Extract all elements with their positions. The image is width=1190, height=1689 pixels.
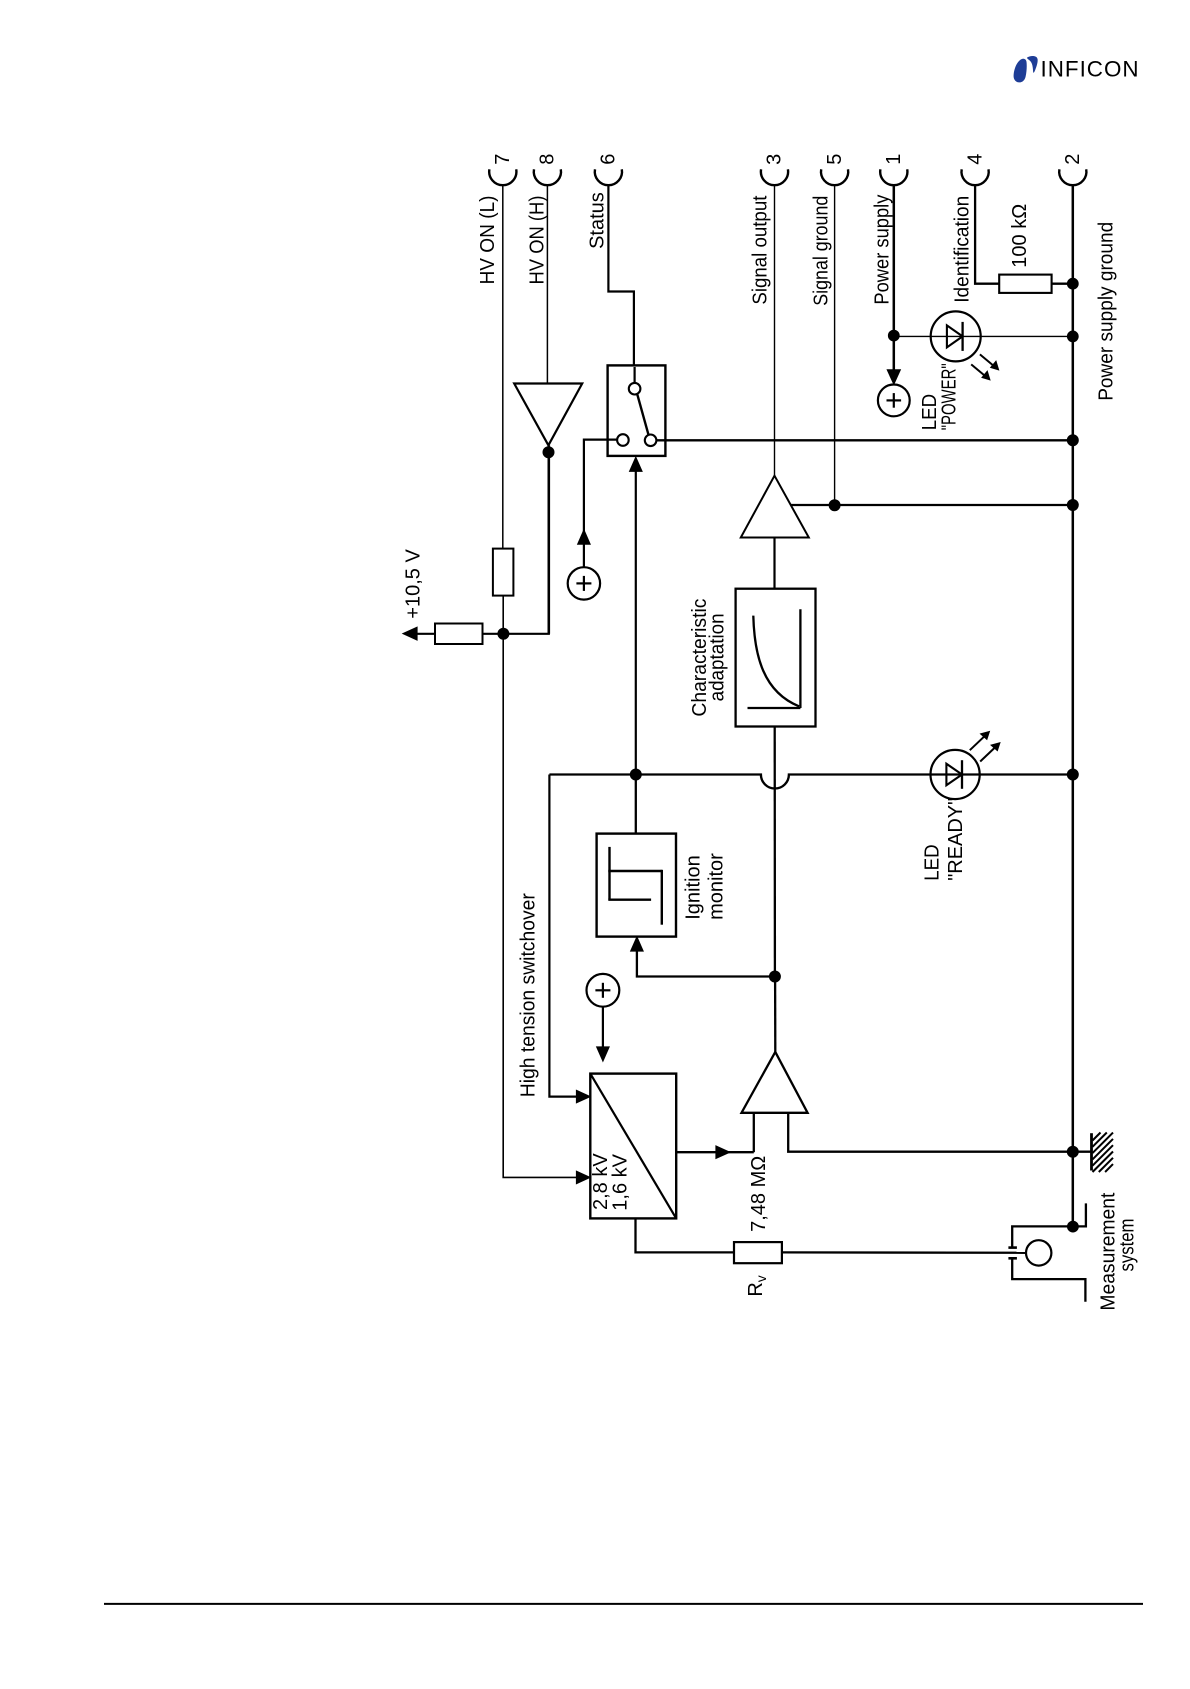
svg-text:100 kΩ: 100 kΩ — [1009, 204, 1031, 268]
svg-text:INFICON: INFICON — [1041, 57, 1140, 82]
wire amp2 left input leg — [753, 1113, 755, 1152]
wire amp1 to characteristic box — [773, 538, 775, 589]
characteristic adaptation box — [736, 589, 816, 727]
connector pin 4 — [962, 169, 989, 185]
wire resistor to inverter output — [483, 633, 550, 635]
switch blade — [637, 394, 648, 435]
LED READY circle — [931, 750, 980, 799]
wire HT converter output — [676, 1151, 754, 1153]
arrow HT output — [716, 1146, 730, 1159]
junction dot signal ground — [829, 500, 840, 511]
switch contact right — [645, 435, 657, 447]
wire amp2 output up — [774, 977, 777, 1052]
junction dot ready bus / pin2 — [1067, 769, 1078, 780]
wire pin 2 power supply ground — [1072, 185, 1075, 1227]
svg-text:Identification: Identification — [951, 196, 973, 303]
wire switch right contact to pin 2 bus — [656, 439, 1072, 441]
junction dot signal ground / pin2 — [1067, 500, 1078, 511]
wire inverter output down — [547, 445, 550, 634]
footer rule — [104, 1603, 1143, 1605]
characteristic curve — [753, 616, 799, 707]
gauge anode circle — [1026, 1240, 1051, 1265]
LED POWER emission arrows — [971, 354, 999, 380]
svg-text:8: 8 — [537, 154, 559, 165]
wire LED POWER row — [894, 335, 1073, 337]
junction dot LED POWER / pin2 — [1067, 331, 1078, 342]
LED READY diode — [946, 760, 962, 789]
svg-text:Rv: Rv — [745, 1275, 769, 1296]
connector pin 5 — [821, 169, 848, 185]
arrow into switch (ready command) — [630, 457, 643, 471]
svg-text:1,6 kV: 1,6 kV — [609, 1153, 631, 1210]
junction dot signal/ignition — [769, 971, 780, 982]
wire amp1 reference to signal ground — [791, 504, 1073, 506]
wire pin 6 to switch — [608, 185, 634, 366]
amplifier A2 (electrometer) — [742, 1052, 808, 1113]
connector pin 1 — [880, 169, 907, 185]
svg-text:+10,5 V: +10,5 V — [403, 549, 425, 619]
wire ready bus with hop — [549, 775, 1072, 789]
wire ignition monitor input — [637, 950, 775, 977]
wire HT converter to Rv — [636, 1218, 735, 1252]
characteristic curve axes — [748, 609, 801, 708]
wire pin 8 to inverter — [546, 185, 548, 384]
ignition monitor box — [597, 834, 676, 937]
connector pin 7 — [489, 169, 516, 185]
svg-text:Power supply: Power supply — [871, 195, 893, 305]
svg-text:2: 2 — [1062, 154, 1084, 165]
gauge upper electrode — [1008, 1203, 1086, 1247]
wire resistor to pin2 bus — [1052, 283, 1073, 285]
svg-text:system: system — [1117, 1219, 1139, 1272]
junction dot status bus / pin2 — [1067, 435, 1078, 446]
resistor (+10,5 V feed) — [435, 624, 483, 645]
wire power supply to + — [893, 336, 896, 372]
svg-text:1: 1 — [883, 154, 905, 165]
connector pin 2 — [1059, 169, 1086, 185]
wire pin 7 down to HT converter — [503, 596, 576, 1178]
wire arrow to resistor — [416, 633, 436, 635]
resistor 100 kOhm — [999, 275, 1051, 293]
connector pin 6 — [595, 169, 622, 185]
wire to chassis ground — [1073, 1151, 1091, 1153]
svg-text:Signal output: Signal output — [749, 195, 771, 304]
wire Rv to gauge anode — [782, 1251, 1026, 1254]
arrow into + supply — [887, 370, 900, 385]
wire pin 4 identification — [975, 185, 999, 284]
wire HT switchover command — [549, 775, 576, 1097]
connector pin 3 — [761, 169, 788, 185]
junction dot pin2 / measurement — [1068, 1221, 1079, 1232]
arrow up to switch command — [578, 530, 591, 544]
svg-text:6: 6 — [598, 154, 620, 165]
wire characteristic to signal node — [774, 727, 777, 977]
svg-text:"READY": "READY" — [945, 798, 967, 881]
HT converter box 2,8kV/1,6kV — [590, 1074, 676, 1219]
switch S1 box — [608, 365, 666, 456]
svg-text:Status: Status — [586, 192, 608, 249]
wire pin 5 signal ground — [834, 185, 836, 505]
wire pin 7 to resistor — [502, 185, 504, 549]
wire ready command vertical — [635, 470, 637, 774]
inverter U1 (HV ON H) — [514, 384, 582, 446]
switch contact left — [617, 434, 629, 446]
svg-text:Signal ground: Signal ground — [810, 196, 832, 306]
wire switch top stub — [633, 367, 635, 383]
arrow +10,5 V supply — [403, 627, 417, 640]
svg-text:"POWER": "POWER" — [938, 363, 960, 430]
arrow into HT converter (HV ON L) — [576, 1171, 590, 1184]
INFICON logo mark — [1014, 56, 1038, 82]
wire + down to HT converter — [602, 1007, 604, 1048]
junction dot power supply — [888, 330, 899, 341]
connector pin 8 — [534, 169, 561, 185]
junction dot inverter output — [543, 447, 554, 458]
switch common contact — [629, 383, 641, 395]
resistor Rv 7,48 MOhm — [734, 1242, 782, 1263]
gauge lower electrode — [1008, 1258, 1085, 1302]
svg-text:HV ON (H): HV ON (H) — [527, 196, 549, 285]
wire switch left contact to summing point — [584, 440, 617, 568]
wire pin 3 signal output — [774, 185, 776, 476]
svg-text:4: 4 — [964, 154, 986, 165]
arrow down to HT converter — [597, 1047, 610, 1061]
junction dot identification / pin2 — [1067, 278, 1078, 289]
junction dot ground bus / pin2 — [1067, 1146, 1078, 1157]
summing point + (status reference) — [568, 567, 600, 599]
junction dot pin7/+10.5V — [498, 628, 509, 639]
svg-text:High tension switchover: High tension switchover — [518, 893, 540, 1097]
svg-text:7,48 MΩ: 7,48 MΩ — [748, 1156, 770, 1232]
svg-text:HV ON (L): HV ON (L) — [477, 196, 499, 285]
svg-text:3: 3 — [764, 154, 786, 165]
arrow into ignition monitor — [631, 937, 644, 951]
resistor (HV ON L pull-up) — [493, 549, 514, 596]
svg-text:5: 5 — [824, 154, 846, 165]
ignition monitor hysteresis symbol — [608, 847, 662, 925]
LED POWER diode — [947, 322, 963, 351]
svg-text:monitor: monitor — [706, 853, 728, 920]
svg-text:Ignition: Ignition — [683, 855, 705, 920]
LED READY emission arrows — [970, 731, 1001, 762]
LED POWER circle — [931, 311, 981, 361]
supply + circle (power) — [878, 385, 910, 417]
wire pin 1 power supply — [893, 185, 896, 336]
svg-text:adaptation: adaptation — [706, 613, 728, 701]
wire amp2 right leg to ground — [788, 1113, 1073, 1152]
chassis ground symbol — [1092, 1133, 1114, 1173]
junction dot ready bus left — [630, 769, 641, 780]
arrow into HT converter (switchover) — [576, 1090, 590, 1103]
svg-text:Power supply ground: Power supply ground — [1095, 222, 1117, 401]
amplifier A1 (output buffer) — [741, 476, 809, 538]
summing point + (HT command) — [587, 974, 620, 1007]
svg-text:7: 7 — [492, 154, 514, 165]
wire ready bus to ignition monitor — [635, 775, 637, 834]
svg-text:LED: LED — [922, 844, 944, 881]
